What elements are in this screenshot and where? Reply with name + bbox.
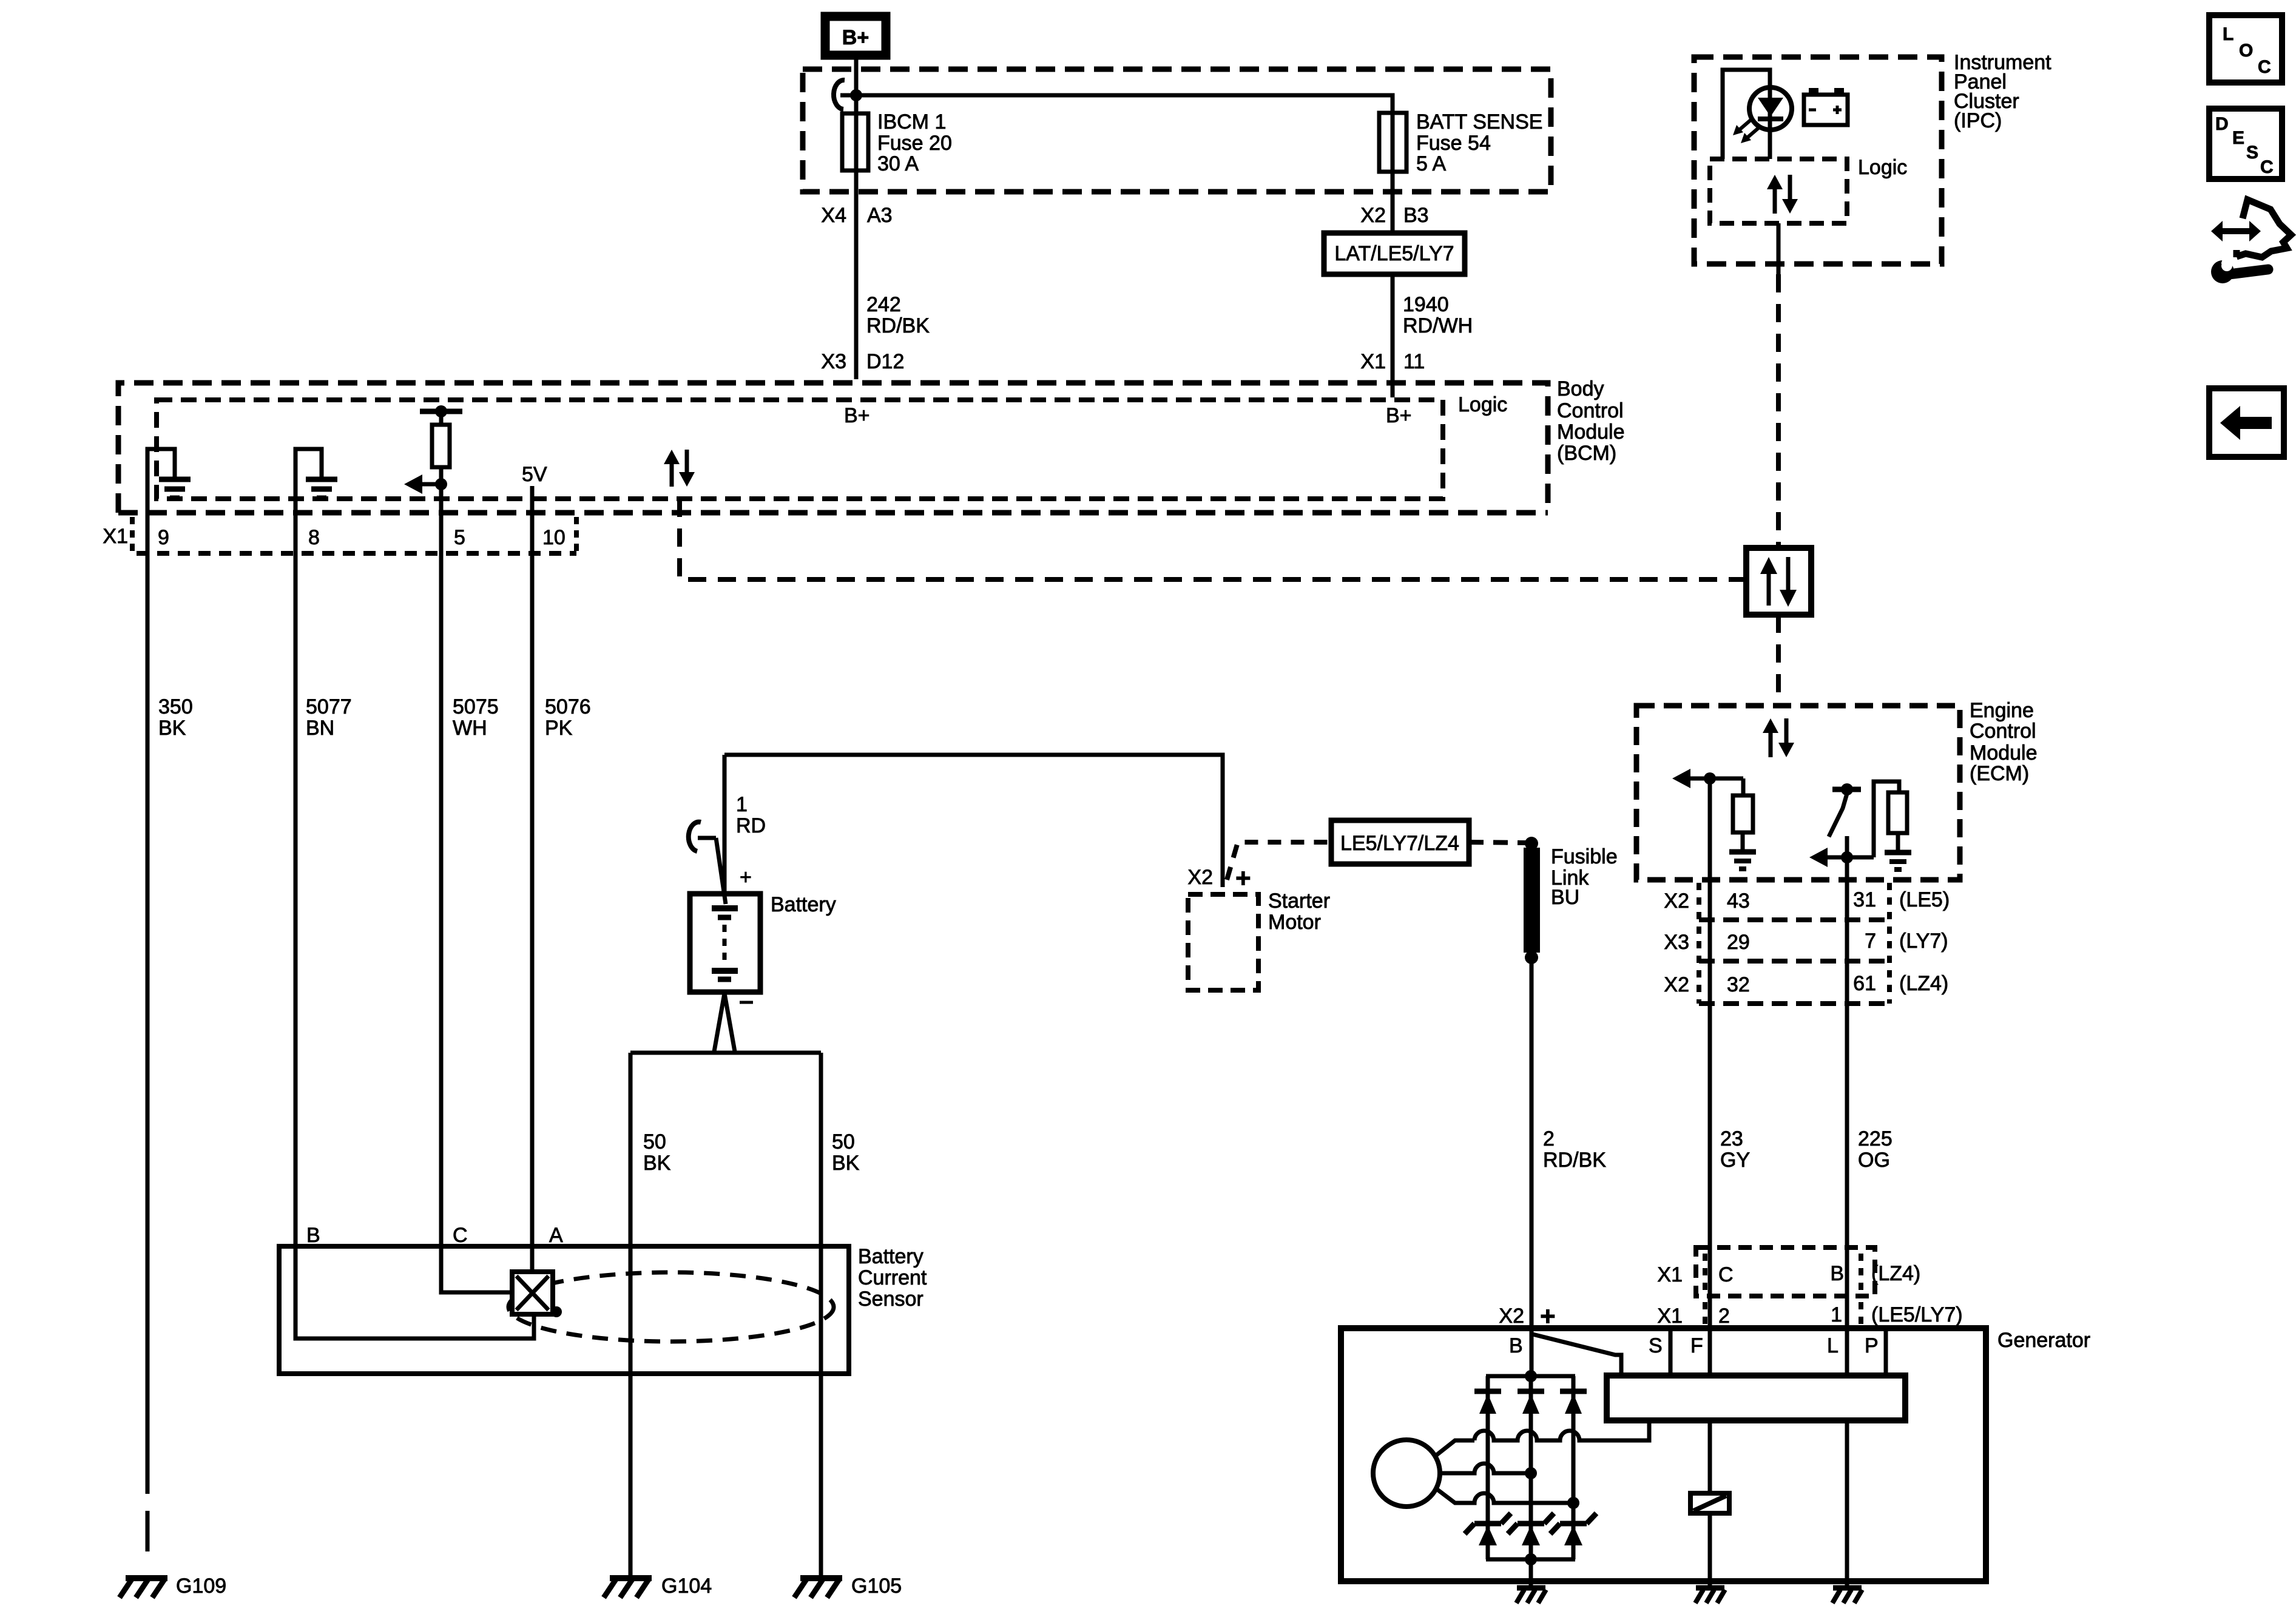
stator phase line top to regulator <box>1435 1420 1649 1456</box>
svg-text:Battery: Battery <box>858 1245 923 1268</box>
svg-text:RD/WH: RD/WH <box>1403 314 1473 337</box>
wire sensor low reference internal <box>295 1246 534 1338</box>
wire ECM pin 31 internal <box>1845 857 1849 880</box>
serial data gateway box <box>1746 548 1811 615</box>
svg-text:Fuse 20: Fuse 20 <box>877 132 952 155</box>
svg-text:1940: 1940 <box>1403 293 1449 316</box>
wire serial data BCM drop (dashed) <box>680 499 1746 579</box>
svg-text:C: C <box>2258 57 2271 77</box>
ground (ECM right) <box>1885 852 1911 869</box>
back arrow icon box <box>2209 388 2284 457</box>
svg-text:BATT SENSE: BATT SENSE <box>1416 110 1542 133</box>
wire serial data IPC to gateway (dashed) <box>1776 274 1781 548</box>
wire dashed jumper starter to LE5 box <box>1227 842 1331 880</box>
wire from B+ down into fuse block <box>854 59 859 379</box>
serial data arrows symbol (ECM) <box>1763 718 1794 757</box>
stator phase line bottom <box>1435 1488 1579 1509</box>
svg-text:X1: X1 <box>1657 1263 1683 1286</box>
starter motor dashed box <box>1188 894 1258 990</box>
svg-text:225: 225 <box>1858 1127 1893 1150</box>
svg-text:BN: BN <box>306 717 334 740</box>
wire IPC logic stub <box>1777 223 1781 274</box>
arrow output at BCM pin 5 node <box>404 474 447 494</box>
svg-text:D: D <box>2215 114 2229 134</box>
sensor element box with X <box>512 1272 562 1317</box>
wire B terminal to rectifier rail <box>1530 1334 1534 1376</box>
ground generator F column <box>1695 1588 1725 1603</box>
svg-text:(LZ4): (LZ4) <box>1899 972 1948 995</box>
wire 5077 BN <box>294 553 298 1246</box>
battery <box>690 894 760 992</box>
svg-text:BK: BK <box>158 717 186 740</box>
svg-text:Starter: Starter <box>1268 890 1330 913</box>
splice clamp symbol at battery <box>689 822 726 904</box>
svg-text:(LE5): (LE5) <box>1899 888 1950 911</box>
svg-text:X2: X2 <box>1187 866 1213 889</box>
fuse block dashed box <box>803 69 1551 192</box>
svg-text:BU: BU <box>1551 886 1579 909</box>
svg-text:X1: X1 <box>103 525 128 548</box>
battery negative cable V splice <box>714 993 735 1052</box>
fusible link BU <box>1524 837 1540 964</box>
node junction at B+ feed <box>850 89 862 101</box>
wire 50 BK right <box>819 1053 823 1576</box>
resistor (ECM right) <box>1874 781 1907 857</box>
svg-text:61: 61 <box>1853 972 1876 995</box>
svg-text:2: 2 <box>1543 1127 1555 1150</box>
svg-text:X1: X1 <box>1657 1305 1683 1328</box>
svg-text:P: P <box>1865 1334 1879 1357</box>
svg-text:(BCM): (BCM) <box>1557 442 1616 465</box>
svg-text:(IPC): (IPC) <box>1954 109 2002 132</box>
svg-text:BK: BK <box>643 1152 671 1175</box>
svg-text:Sensor: Sensor <box>858 1288 923 1311</box>
LOC icon box <box>2209 15 2282 83</box>
wire sensor pin A drop <box>530 1246 535 1272</box>
svg-text:X2: X2 <box>1664 890 1689 913</box>
svg-text:350: 350 <box>158 695 193 718</box>
ground G105 <box>794 1578 842 1598</box>
svg-text:2: 2 <box>1718 1305 1730 1328</box>
generator connector row X1 C B (LZ4) <box>1696 1247 1875 1296</box>
ECM dashed box <box>1636 706 1960 880</box>
svg-text:Module: Module <box>1970 741 2038 765</box>
svg-text:C: C <box>453 1224 468 1247</box>
svg-text:X2: X2 <box>1499 1305 1524 1328</box>
rectifier top rail <box>1486 1374 1575 1379</box>
svg-text:D12: D12 <box>866 350 904 373</box>
svg-text:Engine: Engine <box>1970 699 2034 722</box>
svg-text:5077: 5077 <box>306 695 352 718</box>
svg-text:23: 23 <box>1720 1127 1743 1150</box>
svg-text:G109: G109 <box>176 1575 226 1598</box>
svg-text:B: B <box>306 1224 320 1247</box>
resistor (ECM left) <box>1733 778 1753 849</box>
DESC icon box <box>2209 109 2282 179</box>
indicator lamp LED (IPC) <box>1733 87 1792 143</box>
svg-text:X3: X3 <box>821 350 846 373</box>
svg-text:O: O <box>2239 41 2253 61</box>
svg-text:50: 50 <box>832 1130 855 1153</box>
svg-text:Module: Module <box>1557 420 1625 444</box>
svg-text:X2: X2 <box>1360 204 1386 227</box>
svg-text:5: 5 <box>454 526 465 549</box>
wire 1 RD battery positive cable <box>724 755 1223 887</box>
wire F internal <box>1708 1329 1712 1493</box>
diode column 3 <box>1560 1376 1587 1559</box>
svg-text:C: C <box>1718 1263 1734 1286</box>
svg-text:B+: B+ <box>1386 404 1412 427</box>
field element resistor on F line <box>1690 1420 1729 1588</box>
splice hook symbol <box>834 80 845 109</box>
svg-text:L: L <box>2223 24 2234 44</box>
svg-text:A: A <box>549 1224 563 1247</box>
svg-text:BK: BK <box>832 1152 860 1175</box>
svg-text:RD/BK: RD/BK <box>866 314 930 337</box>
wire dashed LE5 box to fusible link <box>1469 842 1527 843</box>
svg-text:G104: G104 <box>661 1575 712 1598</box>
svg-text:Body: Body <box>1557 377 1604 400</box>
svg-text:Current: Current <box>858 1266 927 1289</box>
svg-text:(LY7): (LY7) <box>1899 930 1948 953</box>
svg-text:X3: X3 <box>1664 931 1689 954</box>
svg-text:5 A: 5 A <box>1416 152 1446 175</box>
shortcut arrow-wrench icon <box>2211 200 2291 283</box>
diode column 1 <box>1474 1376 1501 1559</box>
wire battery negative bus <box>630 1051 821 1055</box>
zener diode column 2 <box>1508 1513 1554 1545</box>
svg-text:9: 9 <box>158 526 169 549</box>
svg-text:L: L <box>1827 1334 1838 1357</box>
svg-text:Fuse 54: Fuse 54 <box>1416 132 1491 155</box>
svg-text:Battery: Battery <box>771 893 836 916</box>
stator phase line middle <box>1439 1463 1537 1479</box>
battery current sensor box <box>279 1246 849 1374</box>
LE5/LY7/LZ4 option box <box>1331 820 1469 864</box>
wire 2 RD/BK <box>1530 964 1534 1334</box>
ground (BCM pin 8 internal) <box>295 449 337 553</box>
IPC Logic dashed box <box>1710 159 1847 223</box>
svg-text:29: 29 <box>1727 931 1750 954</box>
svg-text:50: 50 <box>643 1130 666 1153</box>
wire rectifier to case ground <box>1529 1559 1533 1588</box>
zener diode column 3 <box>1550 1513 1596 1545</box>
svg-text:+: + <box>1235 863 1251 893</box>
svg-text:GY: GY <box>1720 1149 1750 1172</box>
wire 350 BK <box>146 553 150 1494</box>
svg-text:Control: Control <box>1557 399 1624 422</box>
svg-text:7: 7 <box>1865 930 1876 953</box>
ECM connector table <box>1699 883 1889 1004</box>
ground (ECM left) <box>1729 852 1756 869</box>
wire 23 GY <box>1708 880 1712 1329</box>
IPC dashed box <box>1694 57 1942 264</box>
svg-text:Control: Control <box>1970 720 2036 743</box>
wire 50 BK left <box>629 1053 633 1576</box>
svg-text:5V: 5V <box>522 463 547 486</box>
svg-text:B+: B+ <box>844 404 870 427</box>
terminal cell wall P right <box>1884 1328 1888 1377</box>
ground generator L column <box>1832 1588 1862 1603</box>
svg-text:5076: 5076 <box>545 695 591 718</box>
svg-text:11: 11 <box>1403 350 1425 373</box>
wire 5076 PK <box>530 553 535 1246</box>
serial data arrows symbol (BCM) <box>664 450 695 487</box>
svg-text:Motor: Motor <box>1268 911 1321 934</box>
svg-text:LE5/LY7/LZ4: LE5/LY7/LZ4 <box>1340 832 1459 855</box>
rectifier bottom rail <box>1486 1558 1575 1562</box>
svg-text:1: 1 <box>736 793 748 816</box>
wire 5075 WH <box>439 553 444 1246</box>
svg-text:31: 31 <box>1853 888 1876 911</box>
fuse F20 IBCM 1 <box>842 113 868 170</box>
svg-text:+: + <box>740 866 752 889</box>
terminal cell wall S|F <box>1669 1328 1673 1377</box>
svg-text:F: F <box>1690 1334 1703 1357</box>
svg-text:242: 242 <box>866 293 901 316</box>
svg-text:PK: PK <box>545 717 573 740</box>
svg-text:B: B <box>1509 1334 1523 1357</box>
wire L internal <box>1845 1329 1849 1588</box>
svg-text:1: 1 <box>1831 1303 1842 1326</box>
svg-text:10: 10 <box>542 526 566 549</box>
BCM bottom dashed edge <box>118 510 1548 516</box>
svg-text:RD/BK: RD/BK <box>1543 1149 1606 1172</box>
svg-text:43: 43 <box>1727 890 1750 913</box>
svg-text:Fusible: Fusible <box>1551 845 1618 868</box>
svg-text:B+: B+ <box>842 26 869 49</box>
svg-text:S: S <box>1649 1334 1663 1357</box>
wire IPC lamp loop <box>1723 70 1770 159</box>
B+ power symbol box <box>825 16 886 55</box>
node battery negative <box>740 1001 753 1004</box>
ground generator B column <box>1516 1588 1546 1603</box>
svg-text:RD: RD <box>736 814 766 837</box>
svg-text:30 A: 30 A <box>877 152 919 175</box>
arrow sense node ECM pin 43 <box>1672 769 1743 788</box>
LAT/LE5/LY7 option box <box>1324 233 1465 274</box>
zener diode column 1 <box>1465 1513 1511 1545</box>
svg-text:LAT/LE5/LY7: LAT/LE5/LY7 <box>1334 242 1454 265</box>
BCM outer dashed box <box>118 383 1548 513</box>
svg-text:A3: A3 <box>867 204 893 227</box>
svg-text:B3: B3 <box>1403 204 1429 227</box>
svg-text:S: S <box>2246 143 2258 163</box>
svg-text:X1: X1 <box>1360 350 1386 373</box>
serial data arrows symbol (IPC) <box>1767 175 1798 214</box>
svg-text:E: E <box>2232 128 2244 148</box>
svg-text:B: B <box>1830 1262 1844 1285</box>
voltage regulator bar <box>1607 1376 1905 1420</box>
ground G109 <box>120 1578 167 1598</box>
wire B diagonal to regulator <box>1533 1334 1621 1377</box>
ground G104 <box>604 1578 652 1598</box>
rotor circle <box>1373 1440 1440 1507</box>
ground (BCM pin 9 internal) <box>147 449 191 553</box>
svg-text:IBCM 1: IBCM 1 <box>877 110 946 133</box>
switch (ECM right) <box>1829 783 1861 857</box>
svg-text:X2: X2 <box>1664 973 1689 996</box>
dashed sensing ellipse around battery cable <box>508 1272 834 1342</box>
svg-text:8: 8 <box>308 526 320 549</box>
svg-text:Logic: Logic <box>1458 393 1507 416</box>
svg-text:G105: G105 <box>851 1575 902 1598</box>
wire sensor signal internal <box>441 1246 512 1292</box>
fuse F54 BATT SENSE <box>1379 113 1406 172</box>
wire 225 OG <box>1845 880 1849 1329</box>
arrow sense node ECM pin 31 <box>1809 848 1874 867</box>
battery gauge icon (IPC) <box>1804 88 1848 125</box>
svg-text:5075: 5075 <box>453 695 499 718</box>
svg-text:Logic: Logic <box>1858 156 1907 179</box>
X1 connector strip (BCM) <box>132 517 576 553</box>
svg-text:(LZ4): (LZ4) <box>1871 1262 1920 1285</box>
wire serial data gateway to ECM (dashed) <box>1776 615 1781 706</box>
svg-text:Generator: Generator <box>1997 1329 2090 1352</box>
generator box <box>1341 1328 1986 1581</box>
generator connector row X1 2 1 (LE5/LY7) <box>1705 1302 1861 1326</box>
resistor (BCM pull-up on pin 5) <box>420 405 462 553</box>
wire BCM pin 10 stub <box>530 486 535 553</box>
BCM Logic inner dashed box <box>157 400 1443 499</box>
svg-text:X4: X4 <box>821 204 846 227</box>
svg-text:WH: WH <box>453 717 487 740</box>
svg-text:C: C <box>2260 157 2274 177</box>
wire horizontal B+ feed to BATT SENSE fuse <box>840 95 1393 397</box>
svg-text:(LE5/LY7): (LE5/LY7) <box>1871 1303 1963 1326</box>
svg-text:32: 32 <box>1727 973 1750 996</box>
diode column 2 <box>1518 1376 1544 1559</box>
wire ECM pin 43 internal <box>1708 778 1712 880</box>
svg-text:OG: OG <box>1858 1149 1890 1172</box>
svg-text:(ECM): (ECM) <box>1970 762 2029 785</box>
